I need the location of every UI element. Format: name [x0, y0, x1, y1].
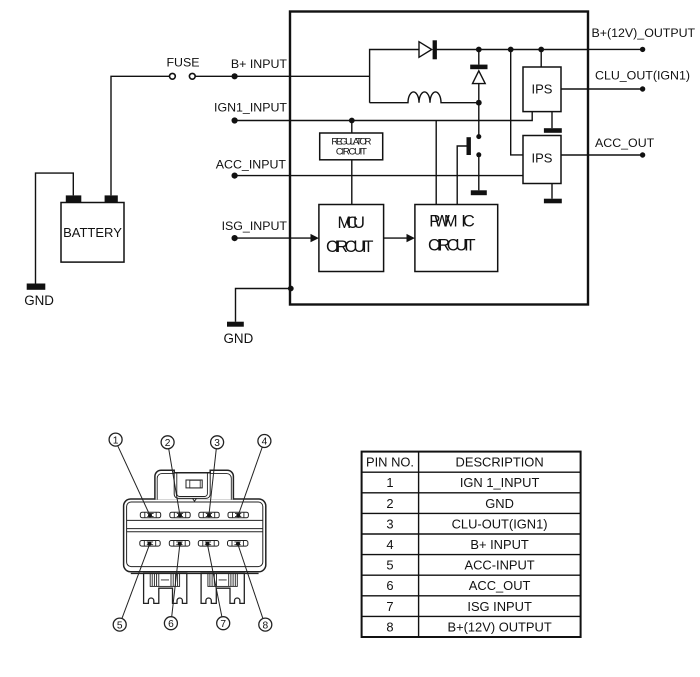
inductor L1 [370, 92, 477, 103]
svg-text:IPS: IPS [532, 82, 553, 97]
svg-text:4: 4 [262, 437, 268, 448]
connector lower lug B [201, 573, 244, 603]
wire ACC input [235, 175, 523, 177]
node IGN1 branch [349, 118, 355, 124]
connector tab key rect inner [190, 480, 200, 488]
connector lug B detail [208, 573, 237, 586]
pin 6 terminal [169, 541, 189, 547]
connector body rail line 3 [127, 531, 263, 533]
connector tab slot outer [174, 473, 210, 499]
connector body outer [124, 499, 266, 572]
svg-text:B+(12V) OUTPUT: B+(12V) OUTPUT [447, 619, 551, 634]
callout circle 2 [161, 436, 174, 449]
svg-text:5: 5 [117, 620, 123, 631]
node B+ INPUT [232, 73, 238, 79]
svg-text:7: 7 [386, 599, 393, 614]
diode D1 [419, 40, 437, 59]
node ACC_INPUT [232, 173, 238, 179]
callout circle 7 [217, 617, 230, 630]
wire box to GND [236, 289, 291, 322]
diode D2 zener clamp [470, 50, 487, 103]
connector tab slot inner [177, 473, 208, 497]
node CLU_OUT terminal [640, 86, 645, 91]
wire IPS2 to ground [551, 184, 553, 199]
pin 2 terminal [170, 512, 190, 518]
connector tab center tick [193, 498, 197, 501]
leader pin 8 [238, 545, 263, 619]
leader pin 7 [208, 545, 222, 617]
ground (IPS1) [544, 128, 562, 133]
svg-text:3: 3 [386, 516, 393, 531]
svg-text:ACC-INPUT: ACC-INPUT [465, 558, 535, 573]
svg-text:PIN NO.: PIN NO. [366, 455, 414, 470]
svg-text:GND: GND [485, 496, 514, 511]
connector lower lug A [144, 573, 187, 603]
svg-text:IGN1_INPUT: IGN1_INPUT [214, 100, 287, 114]
wire IGN1 to regulator [351, 121, 353, 134]
svg-text:ACC_OUT: ACC_OUT [595, 136, 655, 150]
wire fuse to B+ input into box [195, 75, 369, 77]
svg-text:CIRCUIT: CIRCUIT [326, 238, 374, 256]
connector tab outer [155, 470, 234, 499]
svg-text:CIRCUIT: CIRCUIT [428, 236, 476, 254]
svg-text:5: 5 [386, 558, 393, 573]
connector body inner [127, 502, 263, 567]
svg-text:1: 1 [386, 475, 393, 490]
svg-text:B+ INPUT: B+ INPUT [470, 537, 529, 552]
fuse F1 [170, 73, 196, 79]
callout circle 3 [211, 436, 224, 449]
pin 8 terminal [228, 541, 248, 547]
svg-text:ACC_INPUT: ACC_INPUT [216, 158, 287, 172]
svg-text:4: 4 [386, 537, 393, 552]
svg-text:6: 6 [386, 578, 393, 593]
wire regulator to MCU [351, 160, 353, 205]
svg-text:B+ INPUT: B+ INPUT [231, 57, 288, 71]
pin table row lines [362, 472, 581, 616]
wire ACC_OUT [561, 154, 643, 156]
wire ISG to MCU with arrow [235, 237, 312, 239]
leader pin 6 [172, 545, 180, 617]
wire IPS1 to ground [551, 112, 553, 129]
transistor Q1 switch [457, 103, 481, 205]
connector body rail line 1 [127, 519, 263, 521]
pin 1 terminal [140, 512, 160, 518]
wire battery positive to fuse [111, 76, 170, 195]
node ISG_INPUT [232, 235, 238, 241]
pin 7 terminal [198, 541, 218, 547]
connector tab key rect [186, 480, 202, 488]
node top rail junction 1 [476, 47, 482, 53]
node box ground junction [288, 286, 294, 292]
battery B1 [61, 195, 124, 262]
svg-text:7: 7 [220, 619, 226, 630]
svg-text:DESCRIPTION: DESCRIPTION [456, 455, 544, 470]
svg-text:8: 8 [262, 620, 268, 631]
wire top rail to IPS1 [540, 50, 542, 68]
wire B+(12V) output [588, 48, 643, 50]
node inductor output [476, 100, 482, 106]
node top rail junction 3 [538, 47, 544, 53]
callout circle 1 [109, 433, 122, 446]
callout circle 8 [259, 618, 272, 631]
connector lug A detail [150, 573, 179, 586]
pin 3 terminal [199, 512, 219, 518]
svg-text:ACC_OUT: ACC_OUT [469, 578, 531, 593]
pin table column divider [418, 452, 420, 637]
svg-text:CLU_OUT(IGN1): CLU_OUT(IGN1) [595, 68, 690, 82]
IPS block 1 [523, 67, 561, 112]
wire MCU to PWM with arrow [384, 237, 408, 239]
leader pin 4 [239, 447, 263, 515]
callout circle 4 [258, 435, 271, 448]
regulator block [320, 133, 383, 160]
svg-text:GND: GND [24, 293, 54, 308]
svg-text:2: 2 [165, 438, 171, 449]
wire IGN1 input [235, 112, 533, 121]
leader pin 5 [122, 545, 150, 619]
node top rail junction 2 [508, 47, 514, 53]
pin 4 terminal [228, 512, 248, 518]
svg-text:BATTERY: BATTERY [63, 225, 122, 240]
svg-text:6: 6 [168, 619, 174, 630]
pin table outer border [362, 452, 581, 637]
callout circle 6 [164, 617, 177, 630]
wire top rail [436, 49, 588, 51]
svg-text:IPS: IPS [532, 151, 553, 166]
svg-text:B+(12V)_OUTPUT: B+(12V)_OUTPUT [592, 26, 696, 40]
ground (main box) [227, 322, 244, 327]
main unit box [290, 12, 588, 305]
node B+(12V)_OUTPUT terminal [640, 47, 645, 52]
ground (Q1 source) [471, 190, 487, 195]
svg-text:ISG INPUT: ISG INPUT [467, 599, 532, 614]
callout circle 5 [113, 618, 126, 631]
connector tab inner right [210, 474, 231, 500]
svg-text:IC: IC [461, 212, 475, 230]
svg-text:GND: GND [224, 331, 254, 346]
leader pin 2 [169, 449, 180, 515]
wire CLU_OUT [561, 88, 643, 90]
wire IGN1 to PWM IC [435, 121, 437, 205]
wire internal B+ riser [370, 50, 419, 103]
IPS block 2 [523, 136, 561, 184]
wire top rail to IPS2 [511, 50, 523, 155]
svg-text:FUSE: FUSE [166, 55, 199, 69]
svg-text:IGN 1_INPUT: IGN 1_INPUT [460, 475, 540, 490]
ground (IPS2) [544, 199, 562, 204]
connector tab inner left [157, 474, 174, 500]
svg-text:ISG_INPUT: ISG_INPUT [222, 219, 288, 233]
svg-text:CIRCUIT: CIRCUIT [336, 147, 367, 158]
PWM IC block [415, 205, 498, 272]
connector body rail line 2 [127, 528, 263, 530]
node IGN1_INPUT [232, 117, 238, 123]
connector base line [131, 573, 259, 575]
leader pin 3 [209, 449, 216, 515]
svg-text:PWM: PWM [429, 212, 457, 230]
svg-text:MCU: MCU [337, 214, 365, 232]
ground (battery negative) [27, 284, 46, 290]
MCU block [319, 205, 384, 272]
wire battery negative to GND [36, 173, 74, 283]
svg-text:3: 3 [214, 438, 220, 449]
leader pin 1 [118, 446, 150, 515]
svg-text:1: 1 [113, 435, 119, 446]
pin 5 terminal [140, 541, 160, 547]
svg-text:CLU-OUT(IGN1): CLU-OUT(IGN1) [452, 516, 548, 531]
node ACC_OUT terminal [640, 152, 645, 157]
svg-text:8: 8 [386, 619, 393, 634]
svg-text:2: 2 [386, 496, 393, 511]
